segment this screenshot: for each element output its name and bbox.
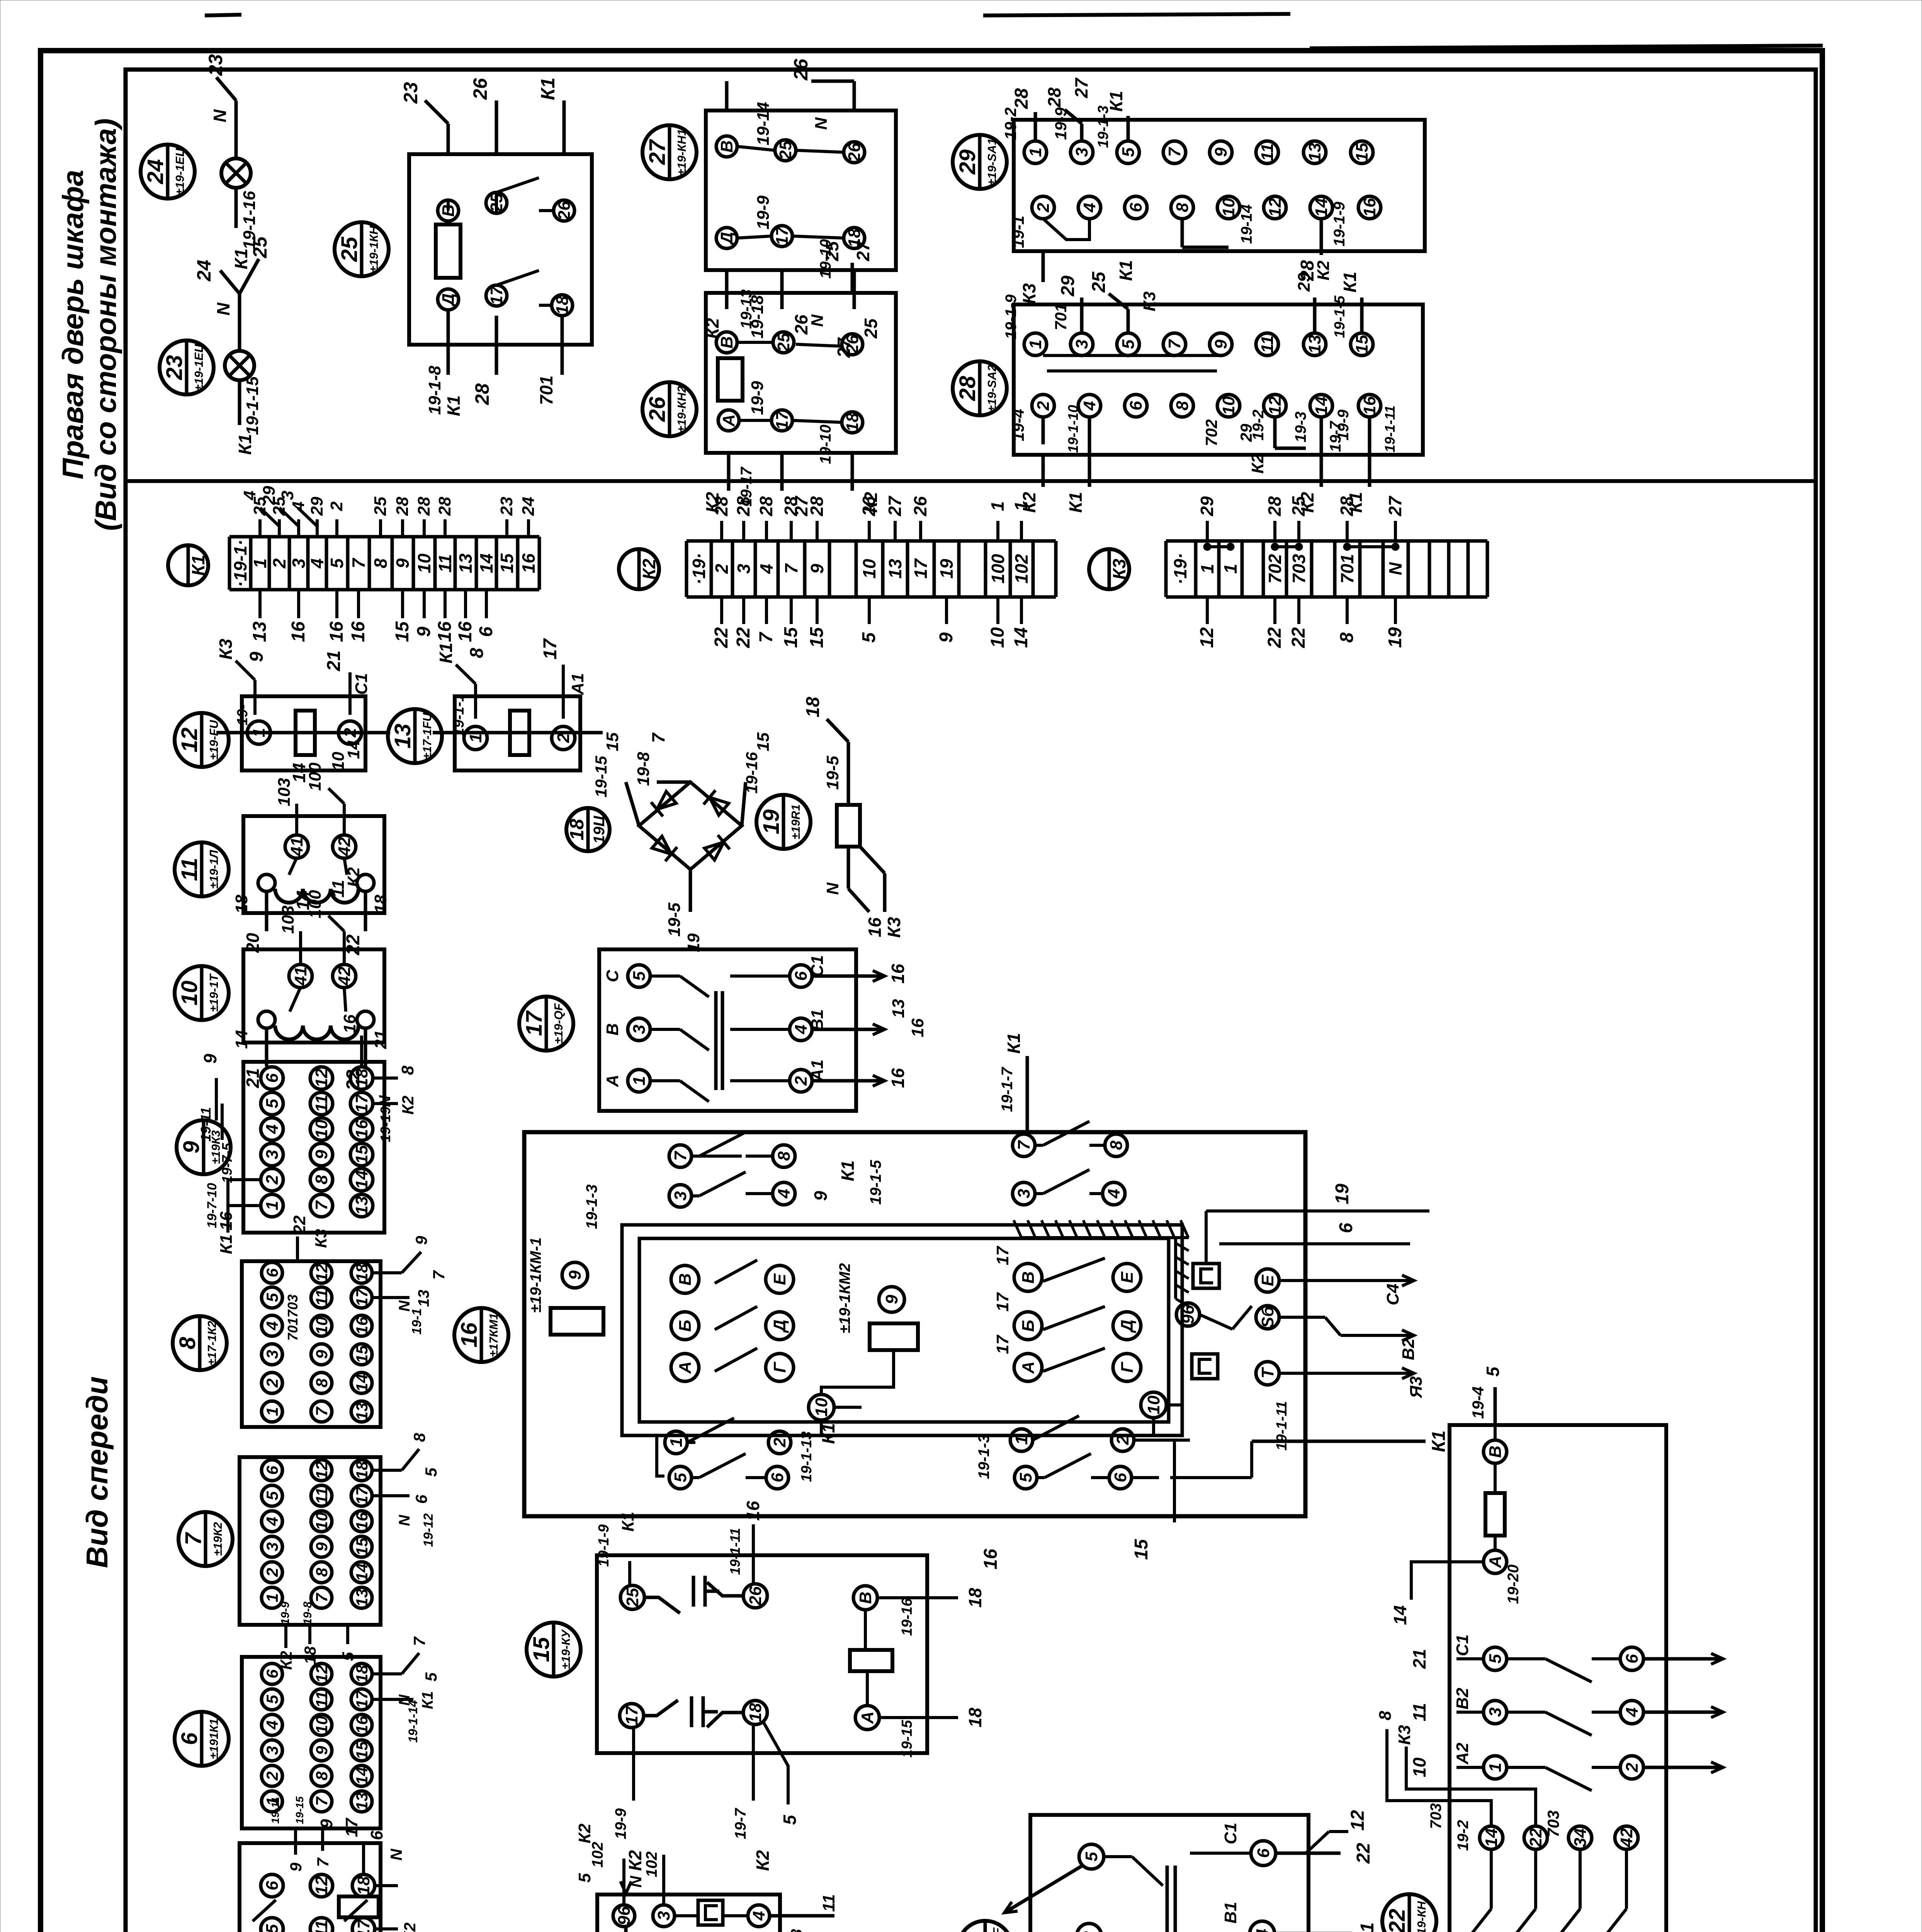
svg-text:8: 8 [313,1378,331,1388]
svg-text:26: 26 [555,201,574,220]
svg-text:14: 14 [1482,1828,1501,1847]
svg-text:26: 26 [469,78,491,100]
svg-text:2: 2 [1623,1762,1642,1772]
svg-text:701: 701 [536,376,556,405]
svg-text:16: 16 [981,1549,1001,1570]
svg-text:К2: К2 [399,1095,417,1114]
svg-text:15: 15 [603,732,622,751]
svg-text:22: 22 [733,627,754,648]
svg-text:К2: К2 [575,1823,594,1844]
svg-text:28: 28 [1011,88,1032,109]
svg-text:8: 8 [1337,632,1357,643]
svg-text:11: 11 [1409,1703,1429,1721]
svg-text:17: 17 [487,285,506,305]
svg-text:5: 5 [263,1099,282,1108]
svg-text:16: 16 [1360,396,1379,415]
svg-text:19-7-5: 19-7-5 [219,1143,235,1183]
svg-text:·19·: ·19· [689,553,709,585]
svg-text:2: 2 [770,1437,789,1447]
svg-text:К3: К3 [216,639,236,660]
svg-text:16: 16 [348,621,369,642]
svg-text:5: 5 [780,1815,800,1825]
svg-text:К1: К1 [444,395,464,416]
svg-text:9: 9 [1212,339,1230,349]
svg-text:N: N [1385,562,1405,575]
svg-text:К1: К1 [619,1512,637,1532]
svg-text:9: 9 [1212,147,1230,157]
svg-text:1: 1 [1197,564,1217,574]
svg-text:16: 16 [457,1322,482,1347]
svg-text:3: 3 [1072,340,1091,349]
svg-text:102: 102 [1011,554,1032,583]
svg-text:А1: А1 [808,1060,827,1082]
svg-text:А: А [676,1361,695,1374]
svg-text:41: 41 [291,967,310,986]
svg-text:16: 16 [435,621,455,642]
svg-text:1: 1 [1220,564,1241,574]
svg-text:Г: Г [1118,1362,1137,1373]
svg-text:100: 100 [306,890,325,918]
svg-text:Т: Т [1258,1367,1277,1378]
svg-text:2: 2 [263,1771,281,1781]
svg-text:10: 10 [313,1317,331,1335]
svg-text:17: 17 [911,558,931,579]
svg-text:16: 16 [888,964,908,984]
svg-text:6: 6 [1336,1223,1356,1233]
svg-text:1: 1 [1486,1763,1505,1772]
svg-text:Д: Д [717,232,736,246]
svg-text:19: 19 [1332,1184,1353,1204]
svg-text:±19R1: ±19R1 [789,804,802,839]
svg-text:3: 3 [1015,1189,1033,1198]
svg-text:13: 13 [889,999,908,1018]
svg-text:19-9: 19-9 [748,381,767,415]
svg-text:26: 26 [746,1586,765,1605]
svg-text:К1: К1 [231,248,251,269]
svg-text:13: 13 [390,724,415,749]
svg-text:18: 18 [232,895,251,913]
svg-text:±19-1ЕЦ: ±19-1ЕЦ [192,344,206,391]
svg-text:16: 16 [352,1119,371,1138]
svg-text:±19-1Т: ±19-1Т [207,973,221,1012]
svg-text:К1: К1 [1429,1430,1449,1452]
svg-text:19-1-3: 19-1-3 [583,1184,600,1229]
svg-text:6: 6 [1623,1654,1642,1663]
svg-text:19-1-3: 19-1-3 [1095,105,1111,148]
svg-text:В: В [603,1023,622,1036]
svg-text:9: 9 [179,1141,204,1153]
svg-text:7: 7 [410,1636,428,1646]
svg-text:19-5: 19-5 [823,755,842,790]
svg-text:18: 18 [353,1461,371,1479]
svg-text:±19-1Л: ±19-1Л [207,850,221,889]
svg-text:14: 14 [476,553,496,573]
svg-text:19-1-13: 19-1-13 [799,1432,815,1482]
svg-text:А1: А1 [568,673,587,695]
svg-text:3: 3 [278,491,297,500]
svg-text:3: 3 [263,1542,281,1551]
svg-text:4: 4 [1623,1708,1642,1717]
svg-text:16: 16 [353,1716,371,1734]
svg-text:16: 16 [353,1512,371,1530]
svg-text:6: 6 [367,1830,386,1840]
svg-text:8: 8 [1107,1140,1126,1150]
svg-text:702: 702 [1202,419,1220,446]
svg-text:А: А [603,1075,622,1087]
svg-text:6: 6 [476,626,496,637]
svg-text:1: 1 [250,728,269,737]
svg-text:17: 17 [522,1010,547,1036]
svg-text:1: 1 [630,1076,649,1085]
svg-text:±19-КУ: ±19-КУ [559,1629,573,1669]
svg-text:19-7-10: 19-7-10 [205,1183,219,1228]
svg-text:22: 22 [343,934,364,956]
svg-text:19Ц: 19Ц [591,815,608,844]
svg-text:13: 13 [353,1793,371,1811]
svg-text:Е: Е [1118,1271,1137,1283]
svg-text:15: 15 [352,1145,371,1164]
svg-text:Б: Б [676,1320,695,1332]
svg-text:6: 6 [768,1473,787,1482]
svg-text:4: 4 [263,1720,281,1730]
svg-text:7: 7 [348,558,369,568]
svg-text:10: 10 [812,1398,831,1417]
svg-text:10: 10 [177,981,202,1006]
svg-text:21: 21 [1409,1649,1429,1669]
svg-text:19-1-1: 19-1-1 [451,694,467,736]
svg-text:19-1-9: 19-1-9 [1331,201,1348,246]
svg-text:22: 22 [1385,1909,1410,1932]
svg-text:А: А [719,414,738,427]
svg-text:7: 7 [313,1796,331,1806]
svg-text:19-3: 19-3 [1292,412,1309,442]
svg-text:±19-SА1: ±19-SА1 [985,138,999,185]
svg-text:8: 8 [1173,202,1192,212]
svg-text:8: 8 [398,1065,417,1075]
svg-text:16: 16 [353,1316,371,1335]
svg-text:4: 4 [1080,203,1099,213]
svg-text:19-18: 19-18 [748,295,767,338]
svg-text:К3: К3 [1140,291,1159,311]
svg-text:26: 26 [859,496,879,517]
svg-text:5: 5 [630,971,649,981]
svg-text:19-16: 19-16 [899,1598,915,1636]
svg-text:25: 25 [1288,496,1309,517]
svg-text:7: 7 [648,732,668,743]
svg-text:6: 6 [263,1881,282,1890]
svg-text:А: А [1486,1556,1505,1568]
svg-text:1: 1 [263,1201,282,1210]
svg-text:±19-FU: ±19-FU [207,719,221,760]
svg-text:19-1-9: 19-1-9 [1003,294,1020,339]
svg-text:10: 10 [1409,1757,1429,1777]
svg-text:25: 25 [371,497,390,516]
svg-text:В: В [856,1592,875,1604]
svg-text:26: 26 [645,396,670,422]
svg-text:4: 4 [756,564,777,574]
svg-text:N: N [396,1514,413,1526]
svg-text:8: 8 [467,648,487,658]
svg-text:7: 7 [313,1406,331,1416]
svg-text:96: 96 [615,1906,634,1925]
svg-text:18: 18 [353,1264,371,1282]
svg-text:15: 15 [754,732,773,751]
svg-text:19-4: 19-4 [1009,409,1027,441]
svg-text:К1: К1 [838,1160,858,1181]
svg-text:1: 1 [263,1407,281,1416]
svg-text:12: 12 [313,1264,331,1282]
svg-text:5: 5 [263,1491,281,1500]
svg-text:19: 19 [936,559,957,579]
svg-text:А: А [858,1711,877,1724]
svg-text:К1: К1 [537,78,559,100]
svg-text:12: 12 [312,1068,331,1087]
svg-text:12: 12 [1348,1810,1368,1831]
svg-text:А: А [1019,1361,1038,1374]
svg-text:17: 17 [993,1334,1012,1354]
svg-text:19-2: 19-2 [1455,1820,1472,1851]
svg-text:18: 18 [352,1068,371,1087]
svg-text:4: 4 [1253,1929,1272,1932]
svg-text:18: 18 [553,296,572,315]
svg-text:703: 703 [285,1294,301,1318]
svg-text:29: 29 [1197,496,1217,517]
svg-text:7: 7 [671,1150,690,1161]
svg-text:16: 16 [743,1501,763,1521]
svg-text:4: 4 [307,558,327,569]
svg-text:28: 28 [1337,496,1357,517]
svg-text:К3: К3 [1019,283,1039,304]
svg-text:К3: К3 [312,1229,330,1248]
svg-text:15: 15 [497,553,517,573]
svg-text:19-7: 19-7 [1327,420,1344,452]
svg-text:29: 29 [1058,276,1078,297]
svg-text:5: 5 [859,632,879,643]
svg-text:25: 25 [861,318,881,339]
svg-text:19-1-5: 19-1-5 [867,1160,884,1204]
svg-text:29: 29 [260,486,279,505]
svg-text:12: 12 [177,728,202,753]
svg-text:8: 8 [312,1175,331,1184]
svg-text:28: 28 [415,497,433,516]
svg-text:13: 13 [885,559,905,579]
svg-text:8: 8 [313,1568,331,1577]
svg-text:13: 13 [415,1290,432,1307]
svg-text:С1: С1 [1453,1634,1472,1656]
svg-text:16: 16 [340,1014,359,1033]
svg-text:10: 10 [1144,1395,1163,1414]
svg-text:19-9: 19-9 [1052,107,1070,140]
svg-text:16: 16 [865,917,885,937]
svg-text:10: 10 [313,1512,331,1531]
svg-text:К1: К1 [1340,272,1360,293]
svg-text:19-11: 19-11 [269,1797,281,1824]
svg-text:24: 24 [519,497,538,516]
svg-text:13: 13 [250,621,270,642]
svg-text:В: В [676,1273,695,1286]
svg-text:27: 27 [1385,495,1405,517]
svg-text:14: 14 [353,1767,371,1785]
svg-text:4: 4 [263,1517,281,1526]
svg-text:N: N [213,303,233,316]
svg-text:Б: Б [1019,1320,1038,1332]
svg-text:41: 41 [287,837,306,857]
svg-text:2: 2 [263,1378,281,1388]
svg-text:25: 25 [1089,271,1109,293]
svg-text:К2: К2 [1248,454,1267,474]
svg-text:9: 9 [882,1294,901,1304]
svg-text:19-1-3: 19-1-3 [975,1434,992,1479]
svg-text:6: 6 [177,1732,202,1745]
svg-text:9: 9 [313,1542,331,1551]
svg-text:15: 15 [392,621,413,642]
svg-text:5: 5 [263,1924,282,1932]
svg-text:28: 28 [807,496,827,517]
svg-text:Г: Г [770,1362,789,1373]
svg-text:3: 3 [671,1191,690,1201]
svg-text:±19-КН2: ±19-КН2 [675,386,688,433]
svg-text:±19К2: ±19К2 [211,1522,224,1556]
svg-text:11: 11 [313,1487,331,1504]
svg-text:3: 3 [263,1350,281,1359]
svg-text:Sб: Sб [1258,1306,1277,1328]
svg-text:1: 1 [1011,501,1031,511]
svg-text:К1: К1 [188,555,208,576]
svg-text:3: 3 [1072,148,1091,157]
svg-text:29: 29 [955,150,980,175]
svg-text:22: 22 [1353,1843,1374,1864]
svg-text:25: 25 [623,1588,642,1607]
svg-text:28: 28 [435,497,454,516]
svg-text:В: В [717,336,736,349]
svg-text:К2: К2 [401,1922,419,1932]
svg-text:17: 17 [353,1690,371,1708]
svg-text:К3: К3 [884,917,904,938]
svg-text:9: 9 [566,1270,585,1280]
svg-text:19-5: 19-5 [665,902,684,937]
svg-text:Вид спереди: Вид спереди [80,1376,114,1568]
svg-text:15: 15 [353,1537,371,1556]
svg-text:17: 17 [353,1288,371,1306]
svg-text:1: 1 [1026,340,1045,349]
svg-text:В: В [717,140,736,153]
svg-text:19-9: 19-9 [612,1808,629,1839]
svg-text:19-20: 19-20 [1505,1565,1522,1604]
svg-text:9: 9 [317,1819,336,1828]
svg-text:4: 4 [1105,1189,1123,1199]
svg-text:16: 16 [888,1068,908,1088]
svg-text:Е: Е [1258,1274,1277,1286]
svg-text:±17КМ1: ±17КМ1 [487,1313,500,1357]
svg-text:18: 18 [566,819,588,840]
svg-text:К2: К2 [753,1850,773,1871]
svg-text:16: 16 [518,553,539,573]
svg-text:5: 5 [1016,1473,1035,1482]
svg-text:12: 12 [313,1461,331,1480]
svg-text:28: 28 [1264,496,1285,517]
svg-text:23: 23 [162,355,187,381]
svg-text:3: 3 [263,1150,282,1159]
svg-text:9: 9 [246,651,267,662]
svg-text:19-16: 19-16 [743,752,761,794]
svg-text:10: 10 [1219,198,1238,217]
svg-text:16: 16 [1360,198,1379,217]
svg-text:±19-КН: ±19-КН [1415,1901,1428,1932]
svg-text:В2: В2 [1399,1338,1418,1360]
svg-text:9: 9 [936,632,957,643]
svg-text:К1: К1 [419,1691,436,1709]
svg-text:3: 3 [630,1025,649,1034]
svg-text:11: 11 [313,1289,331,1306]
svg-text:1: 1 [466,733,485,743]
svg-text:29: 29 [308,497,326,516]
svg-text:6: 6 [1111,1473,1130,1482]
svg-text:К2: К2 [344,867,363,887]
svg-text:25: 25 [249,236,271,259]
svg-text:1: 1 [1012,1435,1031,1445]
svg-text:5: 5 [1483,1366,1503,1377]
svg-text:15: 15 [1353,335,1371,354]
svg-text:·19-1·: ·19-1· [230,540,250,587]
svg-text:16: 16 [455,621,476,642]
svg-text:В: В [1019,1271,1038,1284]
svg-text:С4: С4 [1383,1284,1402,1305]
svg-text:К1: К1 [1116,260,1136,281]
svg-text:27: 27 [645,139,670,165]
svg-text:25: 25 [776,141,795,160]
svg-text:102: 102 [589,1842,606,1868]
svg-text:15: 15 [1353,143,1371,162]
svg-text:14: 14 [1312,396,1331,415]
svg-text:18: 18 [746,1703,765,1722]
svg-text:19-14: 19-14 [754,102,773,146]
svg-text:701: 701 [285,1318,301,1341]
svg-text:К2: К2 [1314,260,1333,281]
svg-text:26: 26 [845,143,864,162]
svg-text:28: 28 [756,496,776,517]
svg-text:25: 25 [774,333,793,352]
svg-text:7: 7 [1015,1139,1033,1150]
svg-text:12: 12 [313,1665,331,1683]
svg-text:4: 4 [749,1911,768,1921]
svg-text:10: 10 [859,559,879,579]
svg-text:100: 100 [306,762,325,791]
svg-text:21: 21 [324,650,344,671]
svg-text:15: 15 [807,627,827,648]
svg-text:7: 7 [312,1200,331,1210]
svg-text:8: 8 [1376,1711,1395,1720]
svg-text:19-1-11: 19-1-11 [1382,405,1398,452]
svg-text:1: 1 [250,558,270,568]
svg-text:±19-1ЕЦ: ±19-1ЕЦ [173,148,187,195]
svg-text:19-11: 19-11 [198,1107,214,1141]
svg-text:15: 15 [353,1345,371,1363]
svg-text:6: 6 [1127,401,1145,410]
svg-text:К1: К1 [1066,492,1086,513]
svg-text:2: 2 [269,558,289,569]
svg-text:К2: К2 [639,559,659,580]
svg-text:19: 19 [759,810,784,835]
svg-text:±191К1: ±191К1 [207,1718,221,1759]
svg-text:19-8: 19-8 [634,752,653,786]
svg-text:2: 2 [1113,1435,1132,1445]
svg-text:13: 13 [353,1403,371,1421]
svg-text:5: 5 [263,1695,281,1704]
svg-text:В: В [1486,1446,1505,1458]
svg-text:К2: К2 [625,1850,645,1871]
svg-text:9: 9 [807,564,827,574]
svg-text:702: 702 [1265,554,1285,583]
